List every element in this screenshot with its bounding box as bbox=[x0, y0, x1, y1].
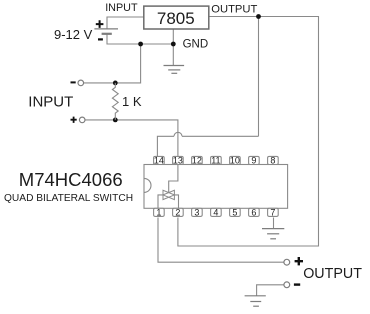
pin 14 bbox=[154, 156, 165, 166]
pin 1 bbox=[154, 208, 165, 218]
pin 5 bbox=[230, 208, 241, 218]
input minus sign bbox=[71, 81, 76, 83]
pin 13 bbox=[173, 156, 184, 166]
pin 3 bbox=[192, 208, 203, 218]
wire switch right side to pin 2 bbox=[174, 195, 178, 208]
ground (regulator) bbox=[164, 66, 185, 74]
svg-text:6: 6 bbox=[251, 208, 256, 218]
terminal input minus bbox=[78, 80, 84, 86]
pin 6 bbox=[249, 208, 260, 218]
svg-text:9-12 V: 9-12 V bbox=[54, 27, 93, 42]
junction battery minus / input network bbox=[138, 42, 143, 47]
ground (output -) bbox=[245, 296, 266, 306]
svg-text:2: 2 bbox=[175, 208, 180, 218]
pin 10 bbox=[230, 156, 241, 166]
pin 12 bbox=[192, 156, 203, 166]
junction resistor bottom bbox=[113, 118, 118, 123]
svg-text:3: 3 bbox=[194, 208, 199, 218]
terminal input plus bbox=[79, 117, 85, 123]
svg-text:11: 11 bbox=[211, 156, 220, 166]
svg-text:8: 8 bbox=[270, 156, 275, 166]
IC notch bbox=[144, 178, 151, 192]
wire input plus terminal to pin 13 bbox=[85, 120, 178, 156]
wire pin 13 to switch control bbox=[169, 165, 178, 193]
junction regulator gnd bbox=[171, 42, 176, 47]
wire pin 7 to ground bbox=[273, 218, 275, 229]
wire battery + to regulator input bbox=[107, 17, 144, 29]
wire regulator GND pin down to ground bbox=[172, 29, 174, 66]
wire pin 1 to output + terminal bbox=[158, 218, 284, 263]
wire +5V branch down from output junction bbox=[258, 17, 260, 137]
svg-text:QUAD BILATERAL SWITCH: QUAD BILATERAL SWITCH bbox=[4, 193, 133, 204]
svg-text:5: 5 bbox=[232, 208, 237, 218]
junction regulator output bbox=[256, 14, 261, 19]
pin 7 bbox=[268, 208, 279, 218]
svg-text:4: 4 bbox=[213, 208, 218, 218]
resistor R1 1K bbox=[112, 83, 118, 120]
wire +5V rail to pin 14 (with hop) bbox=[157, 132, 258, 156]
svg-text:OUTPUT: OUTPUT bbox=[303, 266, 362, 282]
regulator U1 7805 bbox=[144, 6, 209, 29]
wire output - terminal to ground bbox=[257, 285, 284, 296]
junction resistor top bbox=[113, 81, 118, 86]
svg-text:14: 14 bbox=[154, 156, 164, 166]
pin 2 bbox=[173, 208, 184, 218]
svg-text:INPUT: INPUT bbox=[105, 2, 138, 14]
ground (pin 7) bbox=[262, 229, 284, 239]
pin 9 bbox=[249, 156, 260, 166]
output minus sign bbox=[294, 283, 300, 285]
input plus sign bbox=[71, 117, 77, 123]
svg-text:10: 10 bbox=[230, 156, 240, 166]
svg-text:12: 12 bbox=[192, 156, 202, 166]
svg-text:7805: 7805 bbox=[157, 9, 195, 28]
wire regulator output to right rail and down to pin 2 bbox=[178, 17, 319, 247]
battery BT1 plates bbox=[94, 29, 118, 34]
battery + sign bbox=[96, 20, 104, 28]
bilateral switch symbol bbox=[163, 190, 174, 199]
svg-text:1: 1 bbox=[156, 208, 161, 218]
pin 8 bbox=[268, 156, 279, 166]
terminal output minus bbox=[284, 282, 290, 288]
svg-text:GND: GND bbox=[183, 39, 209, 51]
battery - sign bbox=[98, 38, 103, 40]
svg-text:INPUT: INPUT bbox=[28, 93, 73, 110]
output plus sign bbox=[295, 257, 303, 265]
svg-text:13: 13 bbox=[173, 156, 183, 166]
wire input minus terminal to battery junction bbox=[84, 44, 141, 83]
pin 11 bbox=[211, 156, 222, 166]
svg-text:7: 7 bbox=[270, 208, 275, 218]
svg-text:9: 9 bbox=[251, 156, 256, 166]
svg-text:1 K: 1 K bbox=[122, 94, 142, 109]
svg-text:OUTPUT: OUTPUT bbox=[211, 4, 257, 16]
wire battery - lead to ground node bbox=[107, 34, 173, 44]
IC U2 body bbox=[144, 165, 288, 209]
svg-text:M74HC4066: M74HC4066 bbox=[19, 169, 123, 190]
pin 4 bbox=[211, 208, 222, 218]
wire switch left side to pin 1 bbox=[158, 195, 163, 208]
terminal output plus bbox=[284, 259, 290, 265]
